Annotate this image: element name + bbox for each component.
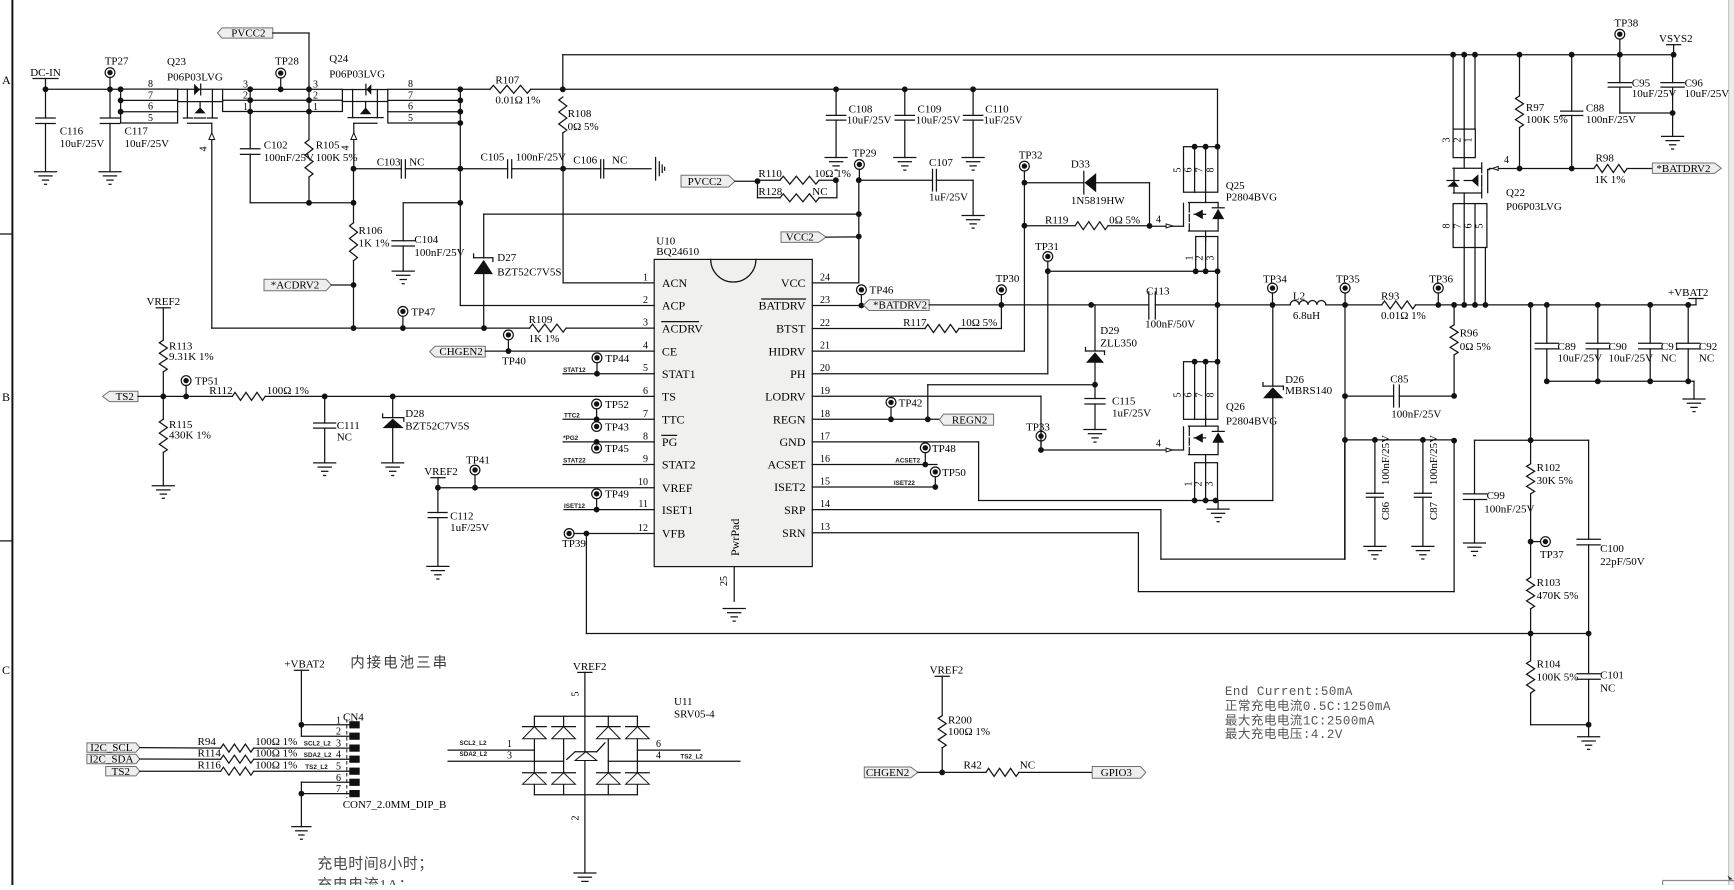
svg-text:TS2_L2: TS2_L2 bbox=[305, 764, 328, 771]
svg-text:10Ω 5%: 10Ω 5% bbox=[961, 317, 998, 329]
svg-text:100Ω 1%: 100Ω 1% bbox=[255, 736, 297, 748]
svg-text:R94: R94 bbox=[198, 736, 217, 748]
svg-text:5: 5 bbox=[643, 363, 648, 374]
svg-text:100nF/50V: 100nF/50V bbox=[1145, 319, 1195, 331]
inductor L2 6.8uH bbox=[1273, 291, 1349, 322]
svg-text:5: 5 bbox=[1173, 393, 1184, 398]
wire bbox=[918, 771, 986, 773]
svg-text:NC: NC bbox=[337, 432, 352, 444]
svg-text:C107: C107 bbox=[929, 157, 953, 169]
svg-text:PVCC2: PVCC2 bbox=[231, 28, 265, 40]
svg-text:C108: C108 bbox=[849, 103, 873, 115]
test point TP32 bbox=[1019, 149, 1043, 182]
net flag GPIO3 bbox=[1092, 767, 1146, 779]
svg-text:18: 18 bbox=[820, 409, 830, 420]
wire Q26 drain link bbox=[1217, 305, 1219, 362]
svg-text:6: 6 bbox=[1184, 393, 1195, 398]
svg-text:DC-IN: DC-IN bbox=[30, 67, 61, 79]
svg-text:24: 24 bbox=[820, 272, 830, 283]
svg-text:P06P03LVG: P06P03LVG bbox=[1506, 201, 1562, 213]
capacitor C96 bbox=[1661, 55, 1729, 113]
power flag VSYS2 bbox=[1659, 33, 1693, 58]
svg-text:R42: R42 bbox=[964, 759, 982, 771]
svg-text:TS2: TS2 bbox=[116, 391, 134, 403]
resistor R42 NC bbox=[964, 759, 1093, 776]
wire SRP riser bbox=[1342, 305, 1348, 559]
svg-text:I2C_SCL: I2C_SCL bbox=[90, 742, 132, 754]
svg-text:TP35: TP35 bbox=[1336, 273, 1360, 285]
svg-text:R128: R128 bbox=[758, 186, 782, 198]
svg-text:0Ω 5%: 0Ω 5% bbox=[1460, 341, 1491, 353]
wire LODRV pin19 bbox=[812, 396, 1044, 453]
net flag I2C_SCL bbox=[87, 742, 140, 754]
svg-text:R96: R96 bbox=[1460, 327, 1479, 339]
wire ISET2 pin15 bbox=[812, 480, 938, 490]
pin box Q26 pins 1/2/3 bbox=[1184, 463, 1219, 504]
svg-text:C105: C105 bbox=[481, 151, 505, 163]
ground bbox=[292, 827, 311, 840]
test point TP51 bbox=[181, 375, 219, 396]
wire Q22 source risers bbox=[1464, 248, 1485, 305]
svg-text:4: 4 bbox=[199, 147, 210, 152]
svg-text:TP45: TP45 bbox=[605, 443, 629, 455]
power flag +VBAT2 bbox=[1668, 287, 1708, 305]
resistor R128 NC bbox=[758, 180, 837, 202]
svg-text:2: 2 bbox=[1453, 138, 1464, 143]
resistor R109 bbox=[529, 314, 655, 345]
wire C99-C100 header bbox=[1475, 439, 1589, 441]
svg-text:10uF/25V: 10uF/25V bbox=[1609, 353, 1654, 365]
svg-text:TP37: TP37 bbox=[1540, 549, 1564, 561]
net flag *BATDRV2 bbox=[863, 300, 929, 312]
svg-text:*BATDRV2: *BATDRV2 bbox=[873, 300, 927, 312]
wire TS rail bbox=[138, 394, 232, 400]
test point TP30 bbox=[996, 273, 1020, 305]
transistor Q25 bbox=[1184, 180, 1278, 241]
capacitor C90 bbox=[1586, 305, 1653, 381]
svg-text:2: 2 bbox=[1195, 256, 1206, 261]
svg-text:C99: C99 bbox=[1487, 490, 1506, 502]
power flag VREF2 bbox=[930, 665, 964, 716]
svg-text:P2804BVG: P2804BVG bbox=[1226, 191, 1277, 203]
svg-text:SCL2_L2: SCL2_L2 bbox=[460, 740, 487, 747]
test point TP46 bbox=[857, 285, 894, 309]
svg-text:0Ω 5%: 0Ω 5% bbox=[1109, 214, 1140, 226]
resistor R116 bbox=[140, 759, 349, 775]
wire CN4 pin6/7 gnd bbox=[299, 782, 350, 826]
ground bbox=[1084, 430, 1106, 443]
svg-text:8: 8 bbox=[1206, 168, 1217, 173]
resistor R114 bbox=[140, 747, 349, 763]
U11 center zener bbox=[567, 692, 605, 874]
svg-text:CHGEN2: CHGEN2 bbox=[439, 346, 482, 358]
svg-text:NC: NC bbox=[1661, 353, 1676, 365]
svg-text:R105: R105 bbox=[316, 139, 340, 151]
capacitor C89 bbox=[1535, 305, 1602, 381]
svg-text:NC: NC bbox=[1020, 759, 1035, 771]
resistor R110 bbox=[758, 168, 851, 184]
svg-text:R117: R117 bbox=[903, 317, 927, 329]
svg-text:CHGEN2: CHGEN2 bbox=[866, 767, 909, 779]
resistor R102 bbox=[1527, 440, 1573, 544]
svg-text:6: 6 bbox=[643, 386, 648, 397]
test point TP45 bbox=[592, 439, 630, 455]
svg-text:NC: NC bbox=[812, 186, 827, 198]
wire VFB feedback bbox=[586, 534, 1530, 634]
svg-text:最大充电电流1C:2500mA: 最大充电电流1C:2500mA bbox=[1225, 712, 1375, 728]
title block corner bbox=[1663, 876, 1734, 886]
resistor R108 bbox=[559, 97, 599, 172]
svg-text:8: 8 bbox=[643, 431, 648, 442]
svg-text:3: 3 bbox=[243, 79, 248, 90]
svg-text:NC: NC bbox=[1600, 683, 1615, 695]
ground bbox=[152, 486, 174, 499]
resistor R119 bbox=[1024, 214, 1152, 229]
frame row letter A bbox=[2, 73, 11, 87]
svg-text:ISET2: ISET2 bbox=[774, 480, 805, 494]
wire Q23 gate bbox=[199, 123, 215, 328]
svg-text:内接电池三串: 内接电池三串 bbox=[350, 655, 449, 672]
wire SRN pin13 bbox=[812, 441, 1454, 592]
svg-text:1: 1 bbox=[243, 102, 248, 113]
wire Q22 gate net bbox=[1488, 155, 1594, 171]
note text max current bbox=[1225, 712, 1375, 728]
svg-text:PVCC2: PVCC2 bbox=[688, 176, 722, 188]
capacitor C85 bbox=[1342, 374, 1454, 421]
wire U11 pin3 bbox=[448, 750, 563, 761]
diode D26 MBRS140 bbox=[1263, 305, 1333, 501]
pin box Q22 pins 8/7/6/5 bbox=[1442, 204, 1487, 248]
wire Q24 gate bbox=[341, 123, 357, 168]
svg-text:22: 22 bbox=[820, 318, 830, 329]
svg-text:VREF2: VREF2 bbox=[146, 296, 180, 308]
resistor R113 bbox=[159, 340, 213, 396]
svg-text:SDA2_L2: SDA2_L2 bbox=[460, 751, 488, 758]
test point TP28 bbox=[275, 56, 299, 90]
wire HIDRV riser bbox=[1022, 180, 1028, 351]
wire ISET1 bbox=[564, 503, 654, 510]
svg-text:SRP: SRP bbox=[784, 503, 806, 517]
wire BTST pin22 bbox=[812, 328, 925, 330]
svg-text:ISET1: ISET1 bbox=[662, 503, 693, 517]
capacitor C100 bbox=[1577, 440, 1645, 636]
capacitor C99 bbox=[1463, 440, 1534, 543]
test point TP39 bbox=[562, 529, 586, 550]
svg-text:0Ω 5%: 0Ω 5% bbox=[568, 121, 599, 133]
resistor R97 bbox=[1516, 52, 1568, 169]
svg-text:R114: R114 bbox=[198, 747, 222, 759]
svg-text:充电时间8小时；: 充电时间8小时； bbox=[317, 856, 434, 873]
svg-text:TP41: TP41 bbox=[466, 454, 490, 466]
svg-text:1: 1 bbox=[313, 102, 318, 113]
svg-text:6: 6 bbox=[656, 739, 661, 750]
svg-text:VREF2: VREF2 bbox=[930, 665, 964, 677]
svg-text:C113: C113 bbox=[1146, 285, 1170, 297]
svg-text:CN4: CN4 bbox=[343, 712, 364, 724]
svg-text:STAT22: STAT22 bbox=[563, 458, 586, 465]
svg-text:充电电流1A：: 充电电流1A： bbox=[317, 877, 414, 886]
svg-text:4: 4 bbox=[1504, 155, 1509, 166]
svg-text:4: 4 bbox=[1156, 439, 1161, 450]
svg-text:TP34: TP34 bbox=[1263, 273, 1287, 285]
svg-text:ISET12: ISET12 bbox=[564, 503, 585, 510]
svg-text:I2C_SDA: I2C_SDA bbox=[89, 754, 133, 766]
svg-text:2: 2 bbox=[1194, 482, 1205, 487]
svg-text:CE: CE bbox=[662, 344, 677, 358]
power flag +VBAT2 bbox=[284, 659, 324, 725]
svg-text:8: 8 bbox=[148, 79, 153, 90]
svg-text:17: 17 bbox=[820, 431, 830, 442]
capacitor C112 bbox=[428, 488, 489, 567]
svg-text:C102: C102 bbox=[264, 139, 288, 151]
wire STAT2 bbox=[563, 458, 654, 465]
svg-text:TP36: TP36 bbox=[1429, 273, 1453, 285]
svg-text:R97: R97 bbox=[1526, 102, 1545, 114]
svg-text:100nF/25V: 100nF/25V bbox=[1380, 435, 1392, 485]
svg-text:C104: C104 bbox=[414, 234, 438, 246]
svg-text:TS2: TS2 bbox=[112, 766, 130, 778]
svg-text:100nF/25V: 100nF/25V bbox=[516, 151, 566, 163]
svg-text:10: 10 bbox=[638, 477, 648, 488]
svg-text:1N5819HW: 1N5819HW bbox=[1071, 195, 1125, 207]
svg-text:BZT52C7V5S: BZT52C7V5S bbox=[405, 421, 469, 433]
svg-text:Q25: Q25 bbox=[1226, 180, 1245, 192]
svg-text:最大充电电压:4.2V: 最大充电电压:4.2V bbox=[1225, 726, 1343, 742]
ground bbox=[962, 158, 984, 171]
svg-text:TTC2: TTC2 bbox=[564, 412, 580, 419]
net flag REGN2 bbox=[939, 414, 993, 426]
capacitor C109 bbox=[895, 86, 960, 157]
net flag *ACDRV2 bbox=[264, 279, 331, 291]
svg-text:REGN2: REGN2 bbox=[952, 414, 987, 426]
svg-text:C89: C89 bbox=[1558, 341, 1577, 353]
svg-text:CON7_2.0MM_DIP_B: CON7_2.0MM_DIP_B bbox=[343, 799, 447, 811]
svg-text:7: 7 bbox=[148, 90, 153, 101]
svg-text:10uF/25V: 10uF/25V bbox=[125, 138, 170, 150]
svg-text:SRN: SRN bbox=[782, 526, 806, 540]
resistor R106 bbox=[350, 223, 390, 285]
wire STAT1 bbox=[563, 367, 654, 374]
wire rail link bbox=[560, 55, 566, 93]
capacitor C91 bbox=[1639, 305, 1680, 381]
capacitor C115 bbox=[1085, 385, 1151, 430]
net flag PVCC2 bbox=[217, 28, 272, 40]
svg-text:U11: U11 bbox=[674, 696, 693, 708]
wire bbox=[735, 178, 760, 184]
svg-text:ISET22: ISET22 bbox=[894, 480, 915, 487]
svg-text:3: 3 bbox=[1442, 138, 1453, 143]
svg-text:TP27: TP27 bbox=[105, 56, 129, 68]
svg-text:TP30: TP30 bbox=[996, 273, 1020, 285]
wire BATDRV to C113 bbox=[1001, 302, 1094, 308]
capacitor C117 bbox=[100, 89, 169, 171]
svg-text:TP48: TP48 bbox=[932, 443, 956, 455]
svg-text:3: 3 bbox=[507, 750, 512, 761]
wire BATDRV net bbox=[929, 302, 1004, 308]
capacitor C116 bbox=[36, 89, 105, 171]
svg-text:23: 23 bbox=[820, 295, 830, 306]
ground bbox=[1207, 501, 1229, 522]
svg-text:100K 5%: 100K 5% bbox=[316, 152, 358, 164]
capacitor C113 bbox=[1091, 285, 1217, 330]
capacitor C105 bbox=[460, 151, 566, 178]
wire C102/R105 bottom bbox=[250, 200, 356, 206]
test point TP47 bbox=[398, 307, 436, 332]
svg-text:TP28: TP28 bbox=[275, 56, 299, 68]
svg-text:TP31: TP31 bbox=[1035, 241, 1059, 253]
wire PVCC2 to drain bbox=[273, 33, 309, 89]
ground bbox=[962, 216, 984, 229]
wire bbox=[826, 236, 859, 238]
power flag DC-IN bbox=[30, 67, 61, 89]
svg-text:P06P03LVG: P06P03LVG bbox=[167, 71, 223, 83]
svg-text:100Ω 1%: 100Ω 1% bbox=[255, 747, 297, 759]
wire ACSET pin16 bbox=[812, 457, 937, 467]
svg-text:R103: R103 bbox=[1537, 577, 1561, 589]
test point TP36 bbox=[1429, 273, 1453, 305]
svg-text:TP32: TP32 bbox=[1019, 149, 1043, 161]
wire PH pin20 bbox=[812, 271, 1220, 374]
svg-text:3: 3 bbox=[1206, 256, 1217, 261]
wire bbox=[836, 88, 905, 90]
svg-text:PH: PH bbox=[790, 367, 806, 381]
svg-text:10uF/25V: 10uF/25V bbox=[1558, 353, 1603, 365]
net flag TS2 bbox=[106, 766, 140, 778]
svg-text:100Ω 1%: 100Ω 1% bbox=[948, 726, 990, 738]
resistor R96 bbox=[1450, 305, 1491, 399]
test point TP34 bbox=[1263, 273, 1287, 305]
svg-text:LODRV: LODRV bbox=[765, 390, 806, 404]
svg-text:R98: R98 bbox=[1596, 152, 1615, 164]
ground bbox=[574, 873, 596, 886]
svg-text:22pF/50V: 22pF/50V bbox=[1600, 556, 1645, 568]
test point TP33 bbox=[1026, 422, 1050, 450]
svg-text:SDA2_L2: SDA2_L2 bbox=[304, 752, 332, 759]
wire D33 to gate bbox=[1149, 183, 1151, 226]
resistor R94 bbox=[140, 736, 349, 752]
svg-text:1: 1 bbox=[643, 272, 648, 283]
svg-text:16: 16 bbox=[820, 454, 830, 465]
svg-text:14: 14 bbox=[820, 499, 830, 510]
right edge strip bbox=[1729, 0, 1734, 885]
capacitor C108 bbox=[826, 86, 891, 157]
svg-text:8: 8 bbox=[1442, 224, 1453, 229]
ground bbox=[427, 566, 449, 579]
svg-text:1uF/25V: 1uF/25V bbox=[450, 522, 489, 534]
capacitor C106 bbox=[563, 155, 651, 179]
test point TP35 bbox=[1336, 273, 1360, 305]
wire PH node bbox=[1218, 302, 1276, 308]
svg-text:End Current:50mA: End Current:50mA bbox=[1225, 685, 1353, 699]
wire cap bank bus bbox=[1544, 378, 1694, 399]
capacitor C88 bbox=[1561, 52, 1636, 169]
svg-text:9: 9 bbox=[643, 454, 648, 465]
svg-text:9.31K 1%: 9.31K 1% bbox=[169, 351, 214, 363]
pin box Q25 pins 1/2/3 bbox=[1185, 237, 1221, 275]
svg-text:TP44: TP44 bbox=[605, 353, 629, 365]
svg-text:*ACDRV2: *ACDRV2 bbox=[271, 280, 320, 292]
svg-text:3: 3 bbox=[1205, 482, 1216, 487]
svg-text:5: 5 bbox=[1475, 224, 1486, 229]
svg-text:15: 15 bbox=[820, 477, 830, 488]
capacitor C111 bbox=[314, 396, 360, 463]
svg-text:TP49: TP49 bbox=[605, 489, 629, 501]
svg-text:5: 5 bbox=[1173, 168, 1184, 173]
svg-text:C111: C111 bbox=[337, 420, 360, 432]
svg-text:2: 2 bbox=[571, 816, 582, 821]
svg-text:STAT12: STAT12 bbox=[563, 367, 586, 374]
ground bbox=[1412, 546, 1434, 559]
pin box Q26 pins 5/6/7/8 bbox=[1173, 359, 1221, 420]
svg-text:ACSET: ACSET bbox=[767, 458, 806, 472]
resistor R115 bbox=[159, 396, 211, 485]
svg-text:ACSET2: ACSET2 bbox=[895, 457, 920, 464]
svg-text:NC: NC bbox=[612, 155, 627, 167]
svg-text:TP43: TP43 bbox=[605, 421, 629, 433]
svg-text:STAT1: STAT1 bbox=[662, 367, 696, 381]
svg-text:P06P03LVG: P06P03LVG bbox=[329, 69, 385, 81]
wire U11 pin4 bbox=[608, 750, 740, 761]
svg-text:100nF/25V: 100nF/25V bbox=[1391, 408, 1441, 420]
capacitor C110 bbox=[963, 86, 1022, 157]
svg-text:20: 20 bbox=[820, 363, 830, 374]
net flag CHGEN2 bbox=[430, 346, 486, 358]
test point TP49 bbox=[592, 489, 630, 513]
frame row letter B bbox=[2, 390, 10, 404]
wire CN4 pin1 bbox=[299, 722, 350, 728]
test point TP52 bbox=[592, 399, 629, 422]
svg-text:PwrPad: PwrPad bbox=[728, 519, 742, 556]
ground bbox=[723, 609, 745, 622]
svg-text:Q23: Q23 bbox=[167, 56, 186, 68]
diode D33 1N5819HW bbox=[1024, 159, 1149, 207]
svg-text:VFB: VFB bbox=[662, 527, 685, 541]
svg-text:11: 11 bbox=[638, 499, 648, 510]
svg-text:100nF/25V: 100nF/25V bbox=[1586, 114, 1636, 126]
svg-text:TP38: TP38 bbox=[1614, 18, 1638, 30]
capacitor C104 bbox=[392, 203, 465, 271]
svg-text:30K 5%: 30K 5% bbox=[1537, 475, 1573, 487]
wire U11 pin1 bbox=[448, 739, 534, 750]
svg-text:R102: R102 bbox=[1537, 462, 1561, 474]
net flag I2C_SDA bbox=[87, 754, 140, 766]
wire PG bbox=[563, 435, 654, 442]
svg-text:1uF/25V: 1uF/25V bbox=[929, 192, 968, 204]
ground bbox=[1683, 399, 1705, 412]
pin box Q22 pins 3/2/1 bbox=[1442, 129, 1476, 158]
power flag VREF2 bbox=[573, 661, 607, 716]
wire C86/C87 header bbox=[1345, 437, 1457, 444]
svg-text:2: 2 bbox=[643, 295, 648, 306]
svg-text:C103: C103 bbox=[377, 156, 401, 168]
wire R102 column top bbox=[1528, 305, 1534, 443]
svg-text:+VBAT2: +VBAT2 bbox=[1668, 287, 1708, 299]
svg-text:0.01Ω 1%: 0.01Ω 1% bbox=[495, 95, 540, 107]
svg-text:4: 4 bbox=[656, 750, 661, 761]
svg-text:C109: C109 bbox=[918, 103, 942, 115]
wire ACP bbox=[460, 123, 654, 306]
svg-text:5: 5 bbox=[408, 113, 413, 124]
wire U11 pin6 bbox=[637, 739, 700, 750]
svg-text:3: 3 bbox=[643, 318, 648, 329]
connector CN4 bbox=[336, 712, 446, 812]
diode D29 ZLL350 bbox=[1086, 305, 1138, 385]
svg-text:2: 2 bbox=[313, 91, 318, 102]
ground bbox=[314, 463, 336, 476]
U10 PwrPad pin 25 bbox=[719, 519, 742, 602]
svg-text:13: 13 bbox=[820, 522, 830, 533]
svg-text:25: 25 bbox=[719, 576, 730, 586]
